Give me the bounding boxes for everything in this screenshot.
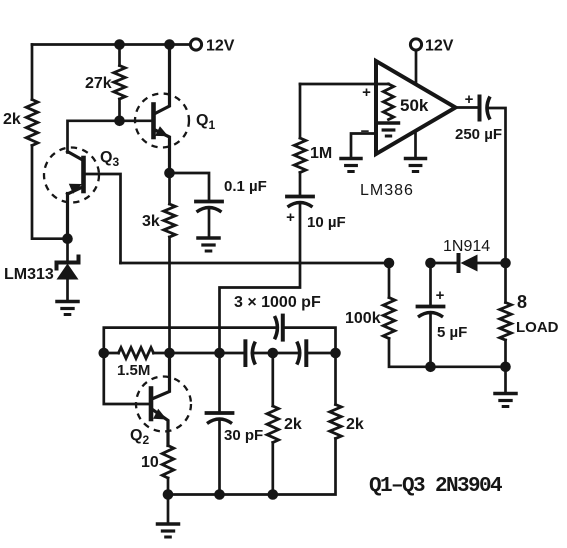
wire: 10 bottom lead xyxy=(167,478,170,495)
wire: upper bypass rail right xyxy=(283,328,336,353)
wire: 30pF bottom lead xyxy=(218,422,221,495)
label: 10uF xyxy=(307,214,346,231)
node: 2k#1 bottom junction xyxy=(268,489,279,500)
wire: Q3 emitter vertical to LM313 node xyxy=(66,194,69,239)
svg-text:Q1–Q3 2N3904: Q1–Q3 2N3904 xyxy=(369,475,502,498)
ground: below 0.1uF xyxy=(198,238,219,251)
node: 30pF top junction xyxy=(214,348,225,359)
capacitor C 0.1uF xyxy=(196,202,222,213)
node: Q1 base / 27k / Q3 collector junction xyxy=(114,116,125,127)
wire: 12V to op-amp top xyxy=(415,50,418,84)
wire: load ground stem xyxy=(504,367,507,392)
wire: 100k bottom lead xyxy=(389,339,429,367)
svg-text:10: 10 xyxy=(141,454,159,471)
label: 0.1uF xyxy=(224,178,267,195)
label: 3k xyxy=(142,213,160,230)
transistor Q3 dashed circle xyxy=(44,148,99,203)
label: 1N914 xyxy=(443,238,490,255)
wire: 0.1uF bottom lead xyxy=(208,210,211,237)
label: 50k xyxy=(400,96,429,115)
node: 30pF bottom junction xyxy=(214,489,225,500)
wire: 2k#2 top lead xyxy=(334,353,337,405)
wire: op-amp power ground stub xyxy=(414,133,417,158)
svg-text:5 µF: 5 µF xyxy=(437,324,467,341)
label: 2k #2 xyxy=(346,416,364,433)
transistor Q2 emitter arrow xyxy=(153,409,167,420)
label: Q3 xyxy=(100,149,119,169)
resistor 10 xyxy=(162,446,174,479)
node: bottom rail ground junction xyxy=(163,489,174,500)
wire: -input stub to ground xyxy=(351,134,376,158)
wire: 2k#1 bottom lead xyxy=(271,443,274,495)
transistor Q2 emitter xyxy=(153,410,169,446)
svg-text:12V: 12V xyxy=(425,38,454,55)
wire: 30pF top lead xyxy=(218,353,221,412)
diode D1 1N914 triangle xyxy=(461,255,478,272)
wire: Q3 collector wire to Q1 base node xyxy=(68,152,84,161)
resistor 3k leads xyxy=(168,173,171,204)
wire: ground stem bottom xyxy=(167,495,170,523)
transistor Q3 base bar xyxy=(81,158,86,191)
svg-text:LM313: LM313 xyxy=(4,266,54,283)
wire: left rail to LM313 node xyxy=(32,146,62,239)
capacitor C 1000pF (#2) curved plate xyxy=(252,342,255,365)
svg-text:LM386: LM386 xyxy=(360,182,414,199)
diode LM313 cathode bar (zener) xyxy=(57,257,79,269)
transistor Q2 dashed circle xyxy=(136,377,191,432)
ground: op-amp power ground xyxy=(406,159,426,172)
wire: load top lead xyxy=(504,263,507,303)
node: junction top rail / 27k xyxy=(114,39,125,50)
resistor 1.5M xyxy=(119,348,154,359)
node: 5uF top junction xyxy=(425,258,436,269)
transistor Q1 emitter arrow xyxy=(155,126,168,136)
ground: below LM313 xyxy=(57,302,78,315)
wire: Q2 base wire xyxy=(104,353,149,404)
wire: +input wire into 50k xyxy=(300,83,389,86)
wire: Q3 collector vertical xyxy=(68,121,120,153)
transistor Q2 base bar xyxy=(149,389,154,420)
svg-text:8: 8 xyxy=(517,292,527,312)
svg-text:0.1 µF: 0.1 µF xyxy=(224,178,267,195)
capacitor C 1000pF (#2) straight plate xyxy=(243,341,247,365)
label: LM386 xyxy=(360,182,414,199)
label: 12V (right) xyxy=(425,38,454,55)
label: 3 x 1000 pF xyxy=(234,294,321,311)
wire: Q3 base wire xyxy=(84,174,121,263)
diode D1 1N914 cathode bar xyxy=(457,255,461,271)
svg-text:100k: 100k xyxy=(345,310,381,327)
label: Q1-Q3 2N3904 caption xyxy=(369,475,502,498)
label: 27k xyxy=(85,75,112,92)
wire: left rail down from top rail xyxy=(31,45,34,100)
node: load top junction xyxy=(500,258,511,269)
op-amp U1 LM386 triangle xyxy=(376,61,456,154)
wire: 5uF top lead xyxy=(429,263,432,305)
ground: -input ground xyxy=(341,159,361,172)
wire: upper bypass rail xyxy=(104,328,275,353)
label: 30pF xyxy=(224,427,263,444)
transistor Q1 dashed circle xyxy=(135,94,189,148)
label: Q1 xyxy=(196,112,215,132)
label: 2k #1 xyxy=(284,416,302,433)
svg-text:1.5M: 1.5M xyxy=(117,362,150,379)
resistor 1.5M leads xyxy=(104,352,119,355)
capacitor C 30pF xyxy=(207,413,233,424)
wire: 2k#1 top lead xyxy=(271,353,274,406)
resistor 50k (internal) xyxy=(383,84,393,120)
svg-text:3 × 1000 pF: 3 × 1000 pF xyxy=(234,294,321,311)
svg-text:2k: 2k xyxy=(346,416,364,433)
label: + (5uF) xyxy=(436,287,445,304)
svg-text:250 µF: 250 µF xyxy=(455,126,502,143)
capacitor C 250uF right plate xyxy=(487,97,490,120)
node: Q2 collector junction xyxy=(164,348,175,359)
label: 5uF xyxy=(437,324,467,341)
wire: lower rail to 30pF node xyxy=(170,352,220,355)
capacitor C 1000pF (top) curved plate xyxy=(275,316,278,339)
label: 1M xyxy=(310,145,332,162)
wire: 1.5M to Q2 collector node xyxy=(154,352,170,355)
node: junction top rail / Q1 collector xyxy=(164,39,175,50)
label: Q2 xyxy=(130,427,149,447)
label: 10 xyxy=(141,454,159,471)
resistor 8-ohm LOAD xyxy=(500,303,512,341)
wire: long horizontal net (Q3 base to output node) xyxy=(121,262,390,265)
ground: bottom ground xyxy=(158,524,179,537)
svg-text:27k: 27k xyxy=(85,75,112,92)
resistor 2k (left) xyxy=(26,100,38,146)
node: lower rail left junction xyxy=(99,348,110,359)
svg-text:12V: 12V xyxy=(206,38,235,55)
wire: +12V top rail xyxy=(32,43,190,46)
wire: LM313 top lead xyxy=(66,239,69,261)
node: LM313 / left rail / Q3 emitter junction xyxy=(62,233,73,244)
terminal: 12V supply (right) xyxy=(410,39,421,50)
svg-text:50k: 50k xyxy=(400,96,429,115)
node: 5uF bottom junction xyxy=(425,362,436,373)
capacitor C 5uF xyxy=(418,307,444,318)
node: load ground junction xyxy=(500,362,511,373)
wire: 250uF to load branch xyxy=(488,108,506,263)
svg-text:+: + xyxy=(362,84,371,101)
wire: bottom right rail xyxy=(429,365,506,368)
wire: 1M to 10uF xyxy=(299,173,302,196)
svg-text:1N914: 1N914 xyxy=(443,238,490,255)
capacitor C 1000pF (top) straight plate xyxy=(281,316,285,340)
wire: Q1 base wire xyxy=(120,119,153,122)
wire: Q2 collector xyxy=(153,353,170,399)
resistor 2k #2 xyxy=(330,405,342,439)
capacitor C 250uF left plate xyxy=(478,97,482,120)
svg-text:1M: 1M xyxy=(310,145,332,162)
capacitor C 10uF xyxy=(287,197,313,208)
node: lower rail right junction xyxy=(330,348,341,359)
wire: to cap C2 xyxy=(273,352,300,355)
capacitor C 1000pF (#3) straight plate xyxy=(304,341,308,365)
ground: internal 50k ground xyxy=(379,123,399,136)
node: 2k #1 top junction xyxy=(268,348,279,359)
label: 12V (left) xyxy=(206,38,235,55)
resistor 1M xyxy=(294,138,306,173)
resistor 100k xyxy=(383,298,395,339)
label: - input xyxy=(361,123,370,140)
wire: node to 1N914 xyxy=(431,262,457,265)
label: LM313 xyxy=(4,266,54,283)
wire: +input corner xyxy=(299,84,302,138)
svg-text:2k: 2k xyxy=(3,111,21,128)
wire: 0.1uF top lead xyxy=(170,173,210,200)
resistor 3k xyxy=(164,204,176,237)
svg-text:3k: 3k xyxy=(142,213,160,230)
label: + (250uF) xyxy=(465,91,474,108)
label: 2k (left) xyxy=(3,111,21,128)
wire: to cap C1 xyxy=(220,352,246,355)
svg-text:2k: 2k xyxy=(284,416,302,433)
node: 100k top junction xyxy=(384,258,395,269)
wire: C2 to right node xyxy=(306,352,335,355)
svg-text:+: + xyxy=(465,91,474,108)
wire: LM313 bottom lead xyxy=(66,280,69,301)
wire: C1 to 2k node xyxy=(252,352,273,355)
transistor Q3 emitter xyxy=(68,187,84,195)
label: + input xyxy=(362,84,371,101)
label: 250uF xyxy=(455,126,502,143)
terminal: 12V supply (left) xyxy=(190,39,201,50)
diode LM313 anode triangle xyxy=(57,264,79,280)
wire: 27k bottom lead xyxy=(118,99,121,121)
wire: Q1 collector from top rail xyxy=(155,45,170,114)
svg-text:+: + xyxy=(286,209,295,226)
node: Q1 emitter / 3k / 0.1uF junction xyxy=(164,168,175,179)
label: + (10uF) xyxy=(286,209,295,226)
resistor 27k xyxy=(114,66,126,100)
transistor Q1 emitter xyxy=(155,130,170,173)
wire: 10uF down, jog left, down to lower network xyxy=(220,205,301,353)
label: LOAD xyxy=(516,319,559,336)
wire: load bottom lead xyxy=(504,340,507,367)
svg-text:30 pF: 30 pF xyxy=(224,427,263,444)
transistor Q3 emitter arrow xyxy=(69,184,82,194)
svg-text:LOAD: LOAD xyxy=(516,319,559,336)
transistor Q1 base bar xyxy=(151,105,156,138)
wire: op-amp output xyxy=(456,106,478,109)
wire: 1N914 to load node xyxy=(478,262,506,265)
svg-text:−: − xyxy=(361,123,370,140)
wire: 5uF bottom lead xyxy=(429,315,432,367)
ground: load ground xyxy=(495,394,516,407)
svg-text:+: + xyxy=(436,287,445,304)
svg-text:10 µF: 10 µF xyxy=(307,214,346,231)
wire: 27k top lead xyxy=(118,45,121,66)
resistor 2k #1 xyxy=(267,406,279,443)
label: 100k xyxy=(345,310,381,327)
wire: 2k#2 bottom lead to bottom rail xyxy=(168,439,336,495)
wire: 100k top lead xyxy=(388,263,391,298)
label: 1.5M xyxy=(117,362,150,379)
wire: 3k down to lower rail (crosses long wire) xyxy=(168,237,171,353)
label: 8 xyxy=(517,292,527,312)
capacitor C 1000pF (#3) curved plate xyxy=(297,342,300,365)
